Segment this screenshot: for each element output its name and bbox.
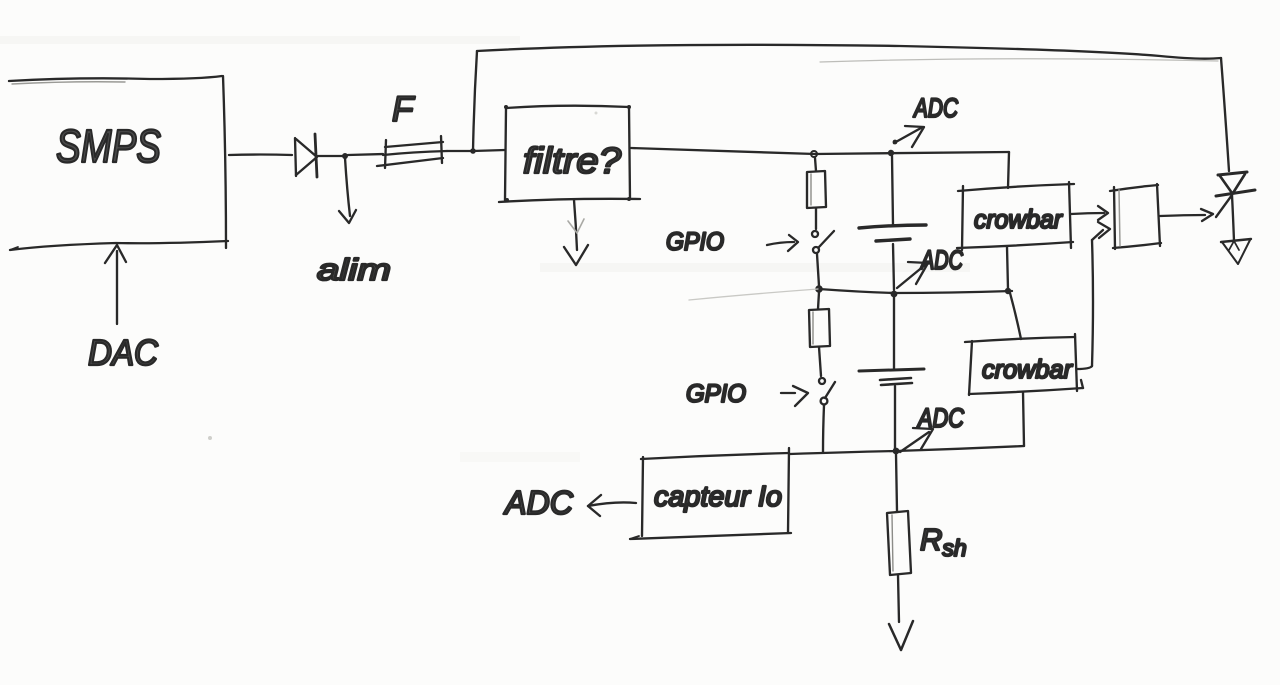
faint double stroke under top bus <box>820 59 1218 62</box>
node G (junction mid bus right) <box>1005 288 1011 294</box>
wire stub node E to R2 <box>818 292 819 309</box>
svg-text:GPIO: GPIO <box>686 380 746 408</box>
crowbar box U1 <box>957 182 1074 250</box>
diode D1 <box>295 134 317 177</box>
svg-text:F: F <box>392 90 416 129</box>
capacitor C1 <box>859 225 926 241</box>
svg-text:DAC: DAC <box>88 332 159 373</box>
node A (junction after diode) <box>342 153 348 159</box>
wire S2 down to bottom bus <box>823 405 824 452</box>
filter box "filtre?" <box>499 105 640 202</box>
alim tap arrow <box>339 158 356 223</box>
wire fuse to node B <box>447 150 472 152</box>
svg-text:ADC: ADC <box>912 93 958 123</box>
wire node F down to C2 <box>893 297 895 369</box>
switch S1 <box>812 231 834 253</box>
wire C2 down to node H <box>894 386 896 449</box>
wire node G into crowbar U2 <box>1010 293 1021 339</box>
resistor R1 <box>807 171 826 208</box>
GPIO arrow 2 <box>781 386 808 406</box>
SMPS box <box>9 76 228 250</box>
resistor Rsh <box>887 511 911 575</box>
ground (right, under thyristor) <box>1221 239 1251 264</box>
wire filter output main run <box>631 148 1009 154</box>
wire SMPS output to diode <box>229 153 292 156</box>
ADC output arrow (from sensor, pointing left) <box>588 495 636 516</box>
wire C1 to node F <box>893 244 894 290</box>
thyristor Q1 <box>1216 172 1255 241</box>
DAC input arrow <box>105 245 126 324</box>
svg-text:crowbar: crowbar <box>974 204 1063 234</box>
node C (junction top of R1 chain) <box>811 151 817 157</box>
wire node A to fuse <box>348 154 383 155</box>
node E (junction mid chain) <box>816 286 822 292</box>
driver box U3 <box>1110 184 1161 249</box>
wire right drop of top bus <box>1221 58 1229 171</box>
crowbar box U2 <box>965 334 1083 395</box>
wire diode to node A <box>318 155 344 157</box>
wire crowbar U2 output up to driver (arrow) <box>1077 222 1110 369</box>
svg-text:SMPS: SMPS <box>56 120 161 172</box>
wire stub node C to R1 <box>815 158 816 171</box>
svg-text:Rsh: Rsh <box>920 522 967 561</box>
wire mid bus run <box>819 289 1012 293</box>
scan background bands <box>0 36 970 462</box>
ADC arrow (top) <box>893 126 924 147</box>
wire R1 to switch S1 <box>815 208 817 229</box>
ADC arrow (bottom) <box>900 428 933 452</box>
resistor R2 <box>809 309 830 347</box>
svg-text:ADC: ADC <box>503 484 574 521</box>
ADC arrow (middle) <box>897 262 928 288</box>
svg-text:crowbar: crowbar <box>982 354 1073 384</box>
wire crowbar U1 to node G <box>1007 247 1008 289</box>
node H (junction bottom bus) <box>893 448 900 455</box>
wire node D down to C1 <box>892 156 893 225</box>
wire crowbar U2 down to bottom bus <box>1023 392 1024 446</box>
ground (below filter) <box>564 200 588 265</box>
svg-text:ADC: ADC <box>920 245 964 275</box>
GPIO arrow 1 <box>767 235 798 251</box>
wire crowbar U1 output to driver (arrow) <box>1071 206 1108 220</box>
switch S2 <box>819 378 835 404</box>
wire Rsh down to ground <box>898 575 899 622</box>
wire driver output to thyristor gate (arrow) <box>1160 195 1232 221</box>
svg-text:capteur Io: capteur Io <box>654 481 782 513</box>
wire bottom bus run <box>790 446 1024 454</box>
capacitor C2 <box>859 369 924 385</box>
wire riser from node B to top bus <box>473 51 477 151</box>
wire node H down to Rsh <box>896 454 897 511</box>
sensor box "capteur Io" <box>630 448 791 539</box>
wire S1 to node E <box>817 254 819 286</box>
node B (junction under riser) <box>470 148 476 154</box>
svg-text:filtre?: filtre? <box>523 140 621 181</box>
faint pencil tail of mid bus <box>689 289 818 300</box>
ground (bottom, open arrow) <box>889 621 913 650</box>
svg-text:GPIO: GPIO <box>666 228 724 256</box>
wire top bus run <box>477 45 1221 59</box>
fuse F1 <box>377 136 447 168</box>
svg-text:alim: alim <box>317 252 391 287</box>
node D (junction top of C1) <box>888 150 894 156</box>
wire top bus into crowbar U1 <box>1008 152 1009 188</box>
node F (junction mid bus) <box>891 291 898 298</box>
wire R2 to switch S2 <box>819 347 821 376</box>
wire node B to filter <box>473 150 505 151</box>
